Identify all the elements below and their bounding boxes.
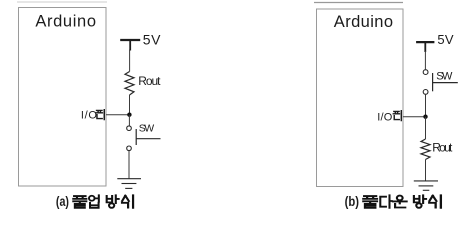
- scan artifact line (decorative): [17, 1, 107, 3]
- wire node to Rout (b): [425, 117, 427, 139]
- resistor Rout (a): [125, 72, 161, 96]
- label I/O핀 (a): [81, 110, 104, 122]
- caption (b) 풀다운 방식: [345, 193, 441, 209]
- wire node to switch (a): [128, 115, 130, 126]
- wire I/O pin to Arduino box (b): [403, 116, 426, 118]
- resistor Rout (b): [421, 139, 453, 160]
- svg-text:Rout: Rout: [138, 74, 161, 88]
- wire I/O pin to Arduino box (a): [106, 114, 129, 116]
- ground (b): [414, 181, 438, 190]
- 5V supply (a): [120, 32, 161, 51]
- svg-text:I/O: I/O: [377, 111, 392, 123]
- svg-text:5V: 5V: [437, 32, 453, 47]
- ground (a): [117, 179, 141, 189]
- scan artifact line (decorative): [314, 2, 403, 4]
- svg-text:5V: 5V: [143, 32, 161, 48]
- caption (a) 풀업 방식: [56, 193, 133, 209]
- node I/O pin junction (b): [423, 115, 427, 119]
- svg-text:(a): (a): [56, 193, 69, 209]
- Arduino block (a): [19, 8, 107, 187]
- node I/O pin junction (a): [127, 113, 131, 117]
- svg-text:Rout: Rout: [432, 141, 453, 155]
- wire 5V to switch (b): [424, 51, 426, 69]
- wire Rout to ground (b): [425, 160, 427, 181]
- svg-text:I/O: I/O: [81, 110, 97, 122]
- svg-text:SW: SW: [139, 122, 154, 134]
- wire 5V to Rout (a): [129, 50, 131, 72]
- pushbutton SW (a): [127, 122, 161, 150]
- svg-text:Arduino: Arduino: [334, 13, 393, 31]
- svg-text:Arduino: Arduino: [35, 13, 96, 31]
- Arduino block (b): [317, 9, 404, 187]
- label I/O핀 (b): [377, 111, 401, 124]
- svg-text:(b): (b): [345, 193, 359, 209]
- wire Rout to node (a): [129, 95, 131, 115]
- svg-text:SW: SW: [436, 70, 453, 82]
- wire switch to ground (a): [128, 151, 130, 179]
- pushbutton SW (b): [423, 70, 458, 95]
- wire switch to node (b): [425, 94, 427, 116]
- 5V supply (b): [416, 32, 454, 52]
